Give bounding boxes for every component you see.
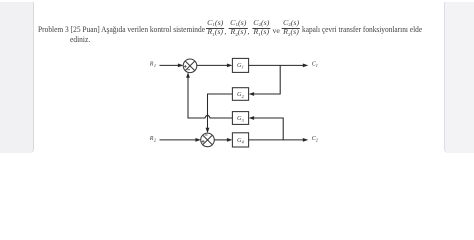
svg-text:1: 1: [316, 63, 318, 68]
arrowhead into S1 bottom: [186, 72, 190, 78]
takeoff node T1 on C1 line, wire down to G2 input: [252, 65, 280, 94]
arrowhead into G3 right side: [249, 116, 255, 120]
svg-text:2: 2: [154, 138, 157, 143]
problem statement text line 1 part A: [38, 24, 205, 34]
minus sign at S1 bottom input: [187, 69, 190, 71]
svg-text:1: 1: [154, 63, 156, 68]
wire S2 to G4: [214, 139, 228, 141]
wire G2 output down to summer S2: [208, 94, 233, 129]
label C1: [312, 61, 318, 68]
arrowhead into G4: [227, 138, 233, 142]
block G2: [232, 88, 248, 101]
block G4: [232, 133, 248, 147]
plus sign at S1 left input: [184, 65, 187, 68]
wire G1 to C1 output: [249, 64, 304, 66]
label G3: [237, 115, 244, 123]
arrowhead into summer S1: [178, 64, 184, 68]
svg-text:4: 4: [242, 140, 245, 145]
plus sign at S2 left input: [202, 140, 205, 143]
node R2 input wire: [160, 139, 197, 141]
problem statement text line 2: [70, 34, 90, 44]
arrowhead into summer S2 left: [195, 138, 201, 142]
label C2: [312, 136, 319, 143]
block G1: [232, 58, 248, 72]
label G4: [237, 137, 245, 145]
svg-text:2: 2: [242, 94, 245, 99]
arrowhead at C1 output: [303, 64, 309, 68]
arrowhead into G2 right side: [249, 92, 255, 96]
problem statement text line 1 part C: [302, 24, 422, 34]
label G2: [237, 91, 245, 99]
fraction cluster: [206, 20, 300, 37]
wire S1 to G1: [197, 64, 229, 66]
label G1: [237, 62, 244, 70]
svg-text:2: 2: [316, 137, 319, 142]
label R1: [149, 61, 156, 68]
node R1 input wire: [160, 64, 180, 66]
arrowhead into S2 top: [206, 128, 210, 134]
arrowhead at C2 output: [303, 138, 309, 142]
summing junction S2: [201, 133, 215, 147]
page background gray margins: [0, 2, 34, 153]
label R2: [149, 136, 157, 143]
arrowhead into G1: [227, 64, 233, 68]
block diagram: [0, 0, 474, 159]
wire G4 to C2 output: [249, 139, 304, 141]
svg-text:1: 1: [242, 65, 244, 70]
wire G3 output with hop over G2 wire, up to summer S1: [188, 76, 232, 118]
takeoff node T2 on C2 line, wire up to G3 input: [252, 118, 283, 140]
block G3: [232, 112, 248, 125]
svg-text:3: 3: [242, 118, 244, 123]
minus sign at S2 top input: [205, 134, 208, 136]
summing junction S1: [183, 59, 197, 73]
